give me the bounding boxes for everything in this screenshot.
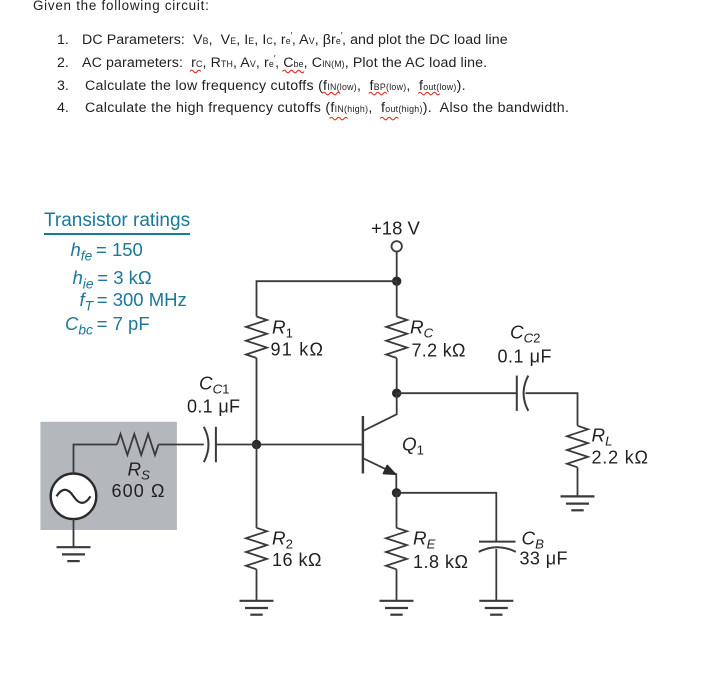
label RL — [592, 425, 613, 449]
svg-text:RE: RE — [413, 528, 436, 552]
svg-text:2.2 kΩ: 2.2 kΩ — [592, 448, 649, 468]
wire RC bottom to collector node — [396, 358, 398, 393]
ground CB — [479, 601, 513, 615]
svg-text:7.2 kΩ: 7.2 kΩ — [412, 341, 466, 361]
label RS value 600 Ohm — [112, 481, 165, 501]
label CC1 — [199, 373, 229, 397]
svg-text:33 μF: 33 μF — [520, 549, 568, 569]
svg-text:R1: R1 — [272, 317, 293, 341]
transistor Q1 — [363, 393, 397, 493]
rating line fT — [80, 291, 187, 313]
ground source — [57, 547, 91, 561]
node collector junction — [392, 389, 401, 398]
wire source to RS — [74, 445, 118, 474]
wire base node to transistor base — [257, 444, 363, 446]
svg-text:+18 V: +18 V — [371, 218, 421, 239]
label R1 value 91 kOhm — [271, 340, 324, 360]
label RE value 1.8 kOhm — [413, 552, 468, 572]
label R1 — [272, 317, 293, 341]
wire R1 bottom to base node — [256, 358, 258, 445]
resistor RE — [386, 528, 407, 570]
label R2 — [272, 528, 293, 552]
label RL value 2.2 kOhm — [592, 448, 649, 468]
ground RE — [380, 601, 414, 615]
wire source to ground — [73, 519, 75, 547]
wire VCC node to RC top — [396, 281, 398, 316]
resistor R1 — [246, 317, 267, 359]
svg-text:1.8 kΩ: 1.8 kΩ — [413, 552, 468, 572]
label CC2 value 0.1 uF — [498, 347, 552, 367]
label RS — [128, 459, 151, 483]
ground R2 — [240, 601, 274, 615]
label CB value 33 uF — [520, 549, 568, 569]
source box (shaded region) — [40, 422, 177, 530]
label RE — [413, 528, 436, 552]
rating line hfe — [71, 241, 143, 263]
wire collector node to CC2 — [397, 392, 517, 394]
wire RE bottom to ground — [396, 569, 398, 601]
squiggle rc — [190, 70, 201, 73]
list item 2 — [57, 56, 69, 70]
wire emitter node to CB top — [397, 493, 497, 542]
wire CB bottom to ground — [495, 549, 497, 601]
squiggle fout(low) — [418, 92, 440, 95]
label RC value 7.2 kOhm — [412, 341, 466, 361]
label CC1 value 0.1 uF — [187, 397, 240, 417]
resistor R2 — [246, 528, 267, 570]
wire CC1 to base node — [216, 444, 257, 446]
wire VCC node to R1 top — [257, 281, 397, 316]
wire RL bottom to ground — [577, 467, 579, 496]
svg-text:RL: RL — [592, 425, 613, 449]
node base junction — [252, 440, 261, 449]
transistor ratings heading — [44, 211, 190, 235]
resistor RL — [567, 426, 588, 468]
capacitor CC1 — [204, 427, 216, 462]
heading text — [33, 0, 210, 12]
squiggle fIN(low) — [322, 92, 340, 95]
label CB — [522, 528, 545, 552]
squiggle Cbe — [283, 70, 305, 73]
svg-text:R2: R2 — [272, 528, 293, 552]
label CC2 — [510, 322, 540, 346]
label R2 value 16 kOhm — [272, 550, 322, 570]
source VS (sine generator) — [51, 474, 97, 520]
svg-text:16 kΩ: 16 kΩ — [272, 550, 322, 570]
svg-text:RC: RC — [410, 317, 434, 341]
wire CC2 to RL top — [526, 393, 578, 426]
svg-text:91 kΩ: 91 kΩ — [271, 340, 324, 360]
supply terminal — [392, 241, 402, 251]
svg-text:600 Ω: 600 Ω — [112, 481, 165, 501]
svg-text:CC1: CC1 — [199, 373, 229, 397]
list item 3 — [57, 79, 69, 93]
rating line hie — [73, 269, 152, 291]
list item 4 — [57, 101, 69, 115]
node VCC junction — [392, 277, 401, 286]
label +18 V — [371, 218, 421, 239]
svg-text:0.1 μF: 0.1 μF — [498, 347, 552, 367]
list item 1 — [57, 33, 69, 47]
squiggle fBP(low) — [369, 92, 387, 95]
wire RS to CC1 — [159, 444, 204, 446]
svg-text:0.1 μF: 0.1 μF — [187, 397, 240, 417]
squiggle fIN(high) — [330, 117, 348, 120]
label RC — [410, 317, 434, 341]
rating line Cbc — [65, 315, 150, 337]
node emitter junction — [392, 488, 401, 497]
wire emitter node to RE top — [396, 493, 398, 528]
ground RL — [561, 496, 595, 510]
wire base node to R2 top — [256, 445, 258, 528]
svg-text:CC2: CC2 — [510, 322, 540, 346]
resistor RC — [386, 317, 407, 359]
wire supply to VCC node — [396, 252, 398, 282]
squiggle fout(high) — [380, 117, 398, 120]
resistor RS — [117, 434, 159, 455]
capacitor CB — [479, 542, 516, 552]
label Q1 — [402, 433, 424, 457]
svg-text:Q1: Q1 — [402, 433, 424, 457]
capacitor CC2 — [517, 376, 529, 411]
wire R2 bottom to ground — [256, 569, 258, 601]
